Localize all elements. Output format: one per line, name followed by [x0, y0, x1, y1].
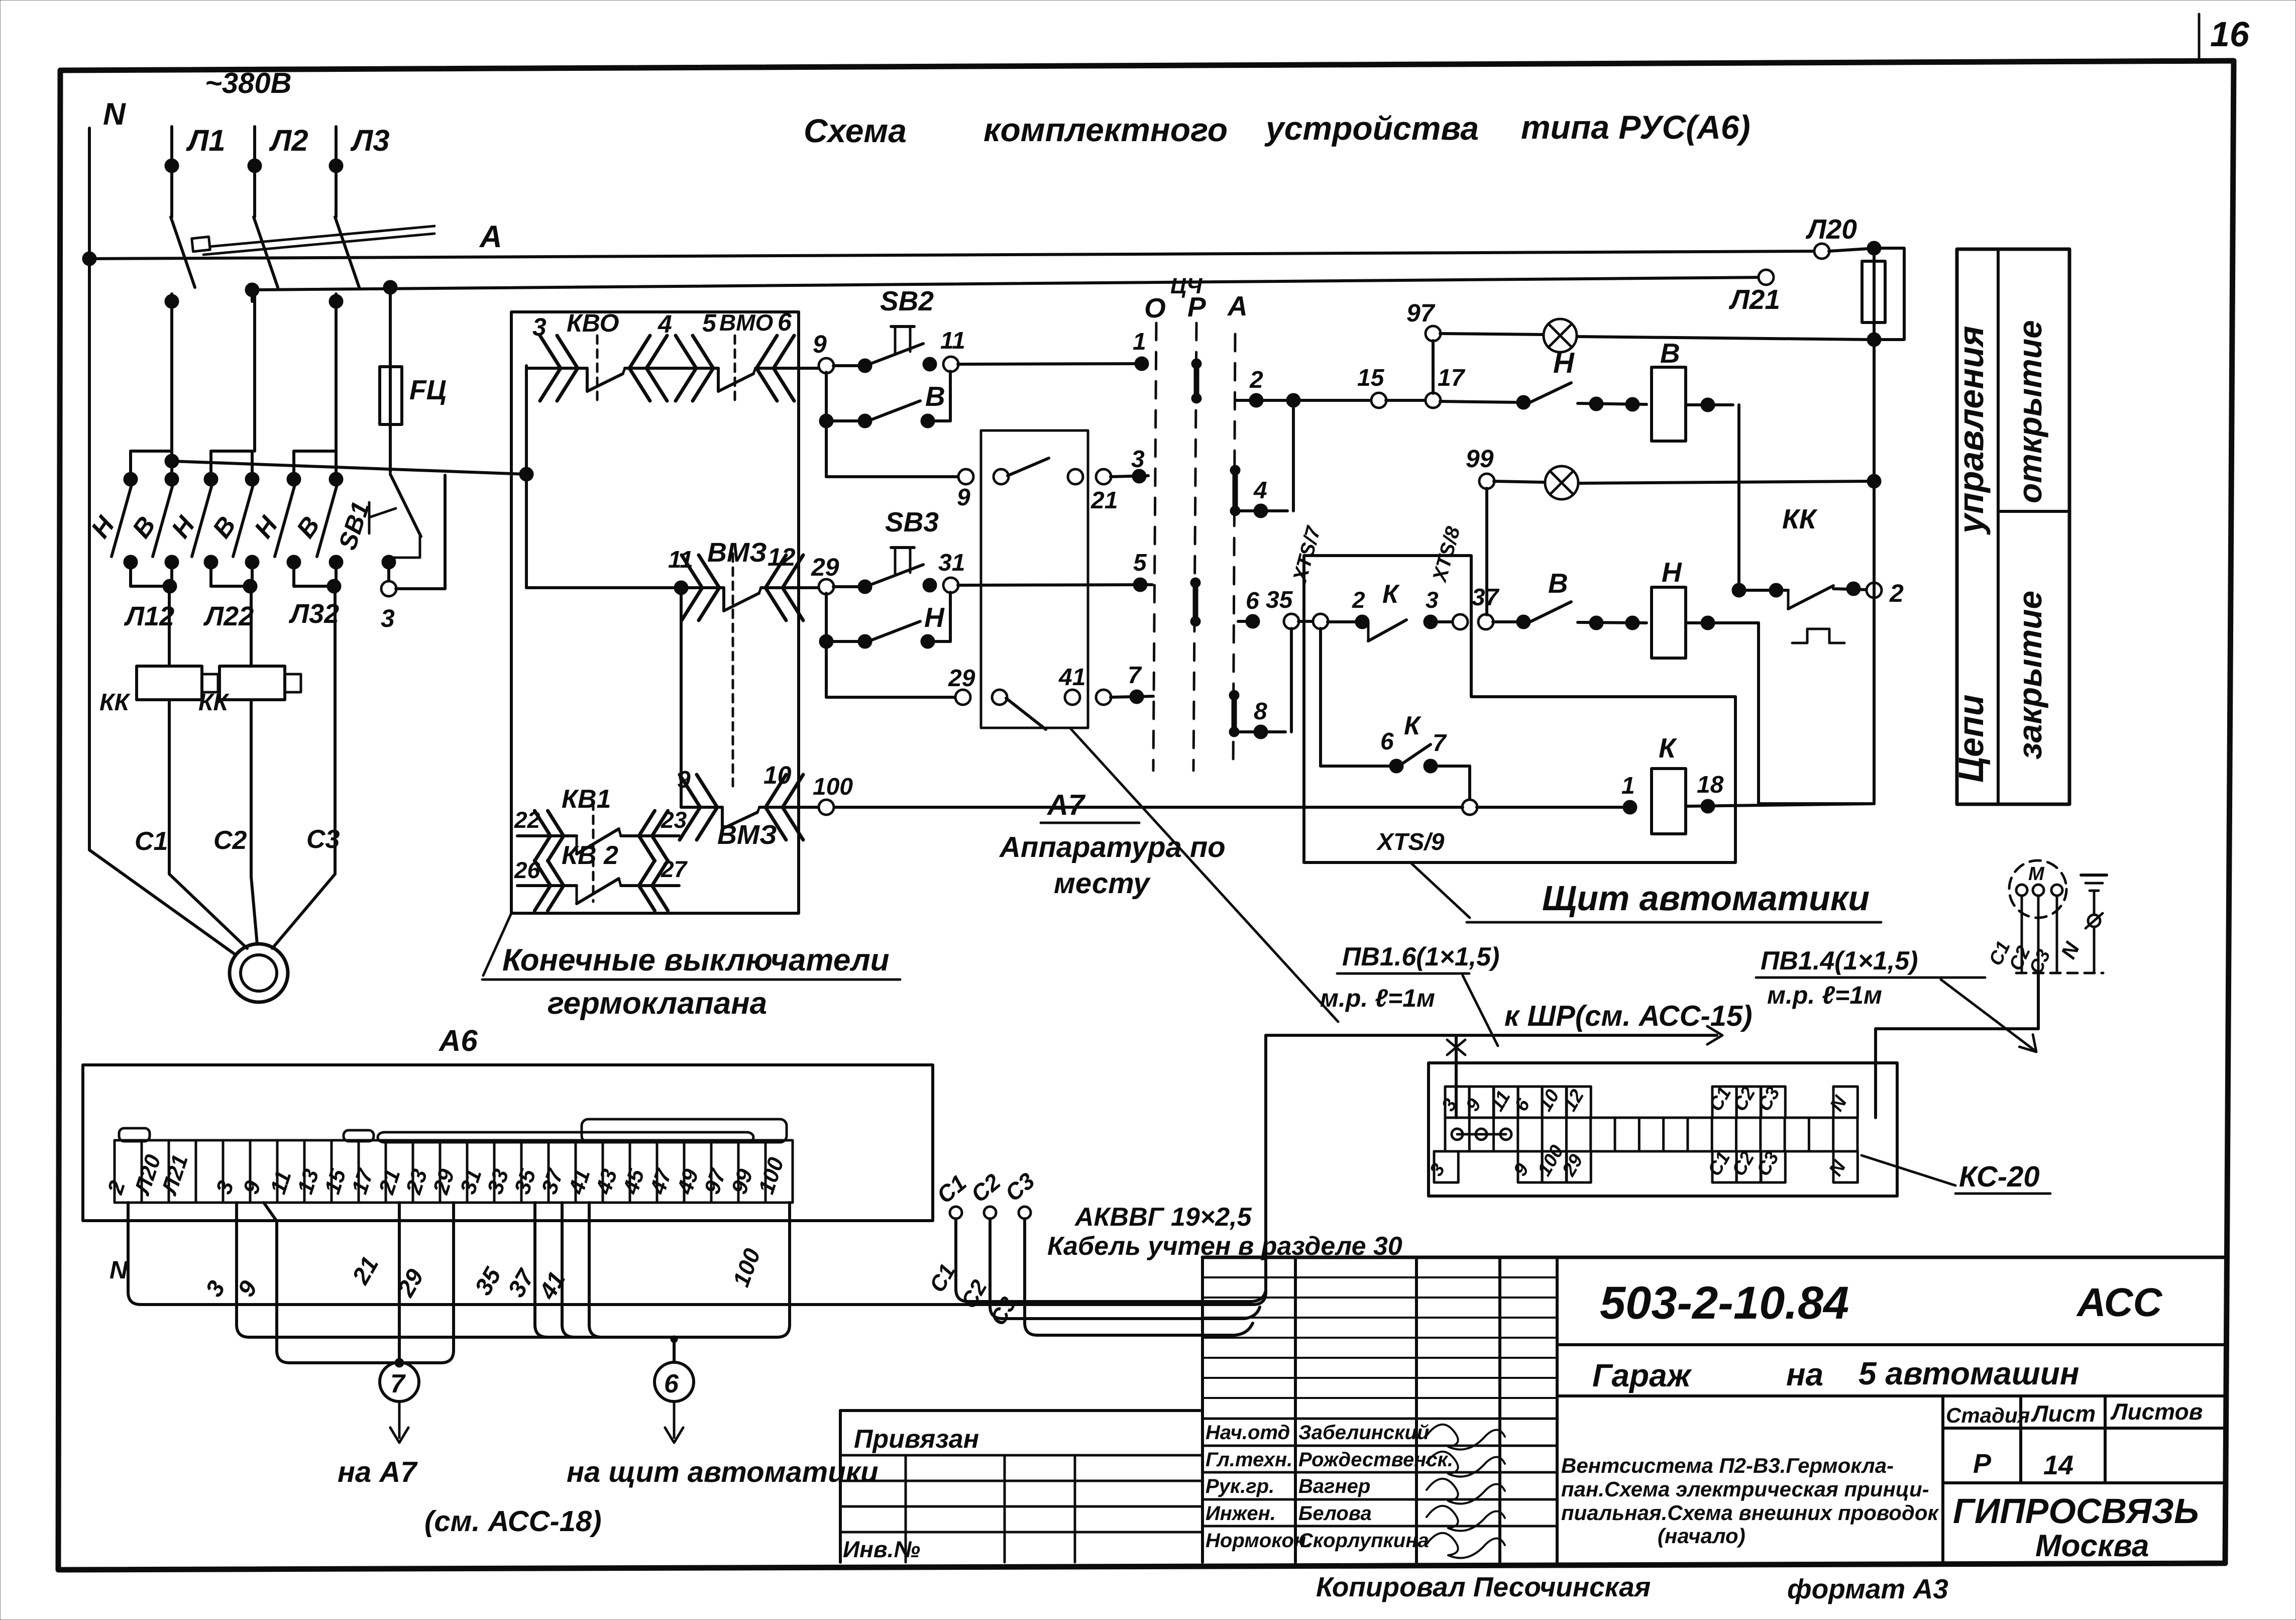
- svg-text:Конечные выключатели: Конечные выключатели: [502, 943, 890, 978]
- svg-text:9: 9: [813, 330, 827, 358]
- svg-text:11: 11: [668, 547, 693, 573]
- svg-text:SВ2: SВ2: [880, 285, 934, 316]
- svg-text:ВМЗ: ВМЗ: [717, 820, 777, 850]
- svg-text:гермоклапана: гермоклапана: [548, 986, 767, 1021]
- svg-text:7: 7: [1128, 662, 1142, 689]
- svg-text:Л2: Л2: [269, 124, 308, 157]
- svg-text:А: А: [1227, 290, 1248, 321]
- svg-text:10: 10: [763, 761, 792, 789]
- svg-text:Л22: Л22: [203, 601, 254, 631]
- svg-text:Инв.№: Инв.№: [843, 1536, 920, 1562]
- svg-text:23: 23: [661, 807, 687, 833]
- svg-text:пиальная.Схема внешних проводо: пиальная.Схема внешних проводок: [1561, 1501, 1939, 1525]
- svg-text:КК: КК: [1782, 503, 1818, 534]
- svg-text:КВ1: КВ1: [562, 785, 611, 814]
- svg-text:5 автомашин: 5 автомашин: [1858, 1355, 2080, 1391]
- svg-text:1: 1: [1133, 329, 1146, 355]
- svg-text:16: 16: [2210, 15, 2250, 54]
- svg-text:К: К: [1404, 711, 1422, 740]
- svg-text:К: К: [1382, 580, 1400, 609]
- svg-text:99: 99: [1466, 445, 1494, 473]
- svg-text:11: 11: [940, 328, 965, 354]
- svg-text:устройства: устройства: [1264, 110, 1479, 147]
- svg-text:Листов: Листов: [2110, 1398, 2203, 1425]
- svg-text:12: 12: [768, 543, 796, 571]
- svg-text:АКВВГ 19×2,5: АКВВГ 19×2,5: [1074, 1203, 1252, 1232]
- svg-text:КК: КК: [99, 689, 131, 716]
- svg-text:5: 5: [702, 309, 717, 337]
- svg-text:Гараж: Гараж: [1592, 1357, 1692, 1393]
- svg-text:закрытие: закрытие: [2011, 591, 2048, 760]
- svg-text:Л32: Л32: [288, 599, 339, 629]
- svg-text:5: 5: [1133, 550, 1147, 576]
- svg-text:С1: С1: [135, 827, 168, 856]
- svg-text:формат А3: формат А3: [1787, 1573, 1948, 1604]
- svg-text:Скорлупкина: Скорлупкина: [1298, 1530, 1429, 1552]
- svg-text:Нормокон.: Нормокон.: [1206, 1530, 1311, 1552]
- svg-text:3: 3: [532, 313, 546, 341]
- svg-text:на: на: [1786, 1356, 1823, 1392]
- svg-text:4: 4: [658, 310, 672, 338]
- svg-text:Л20: Л20: [1805, 213, 1857, 245]
- svg-text:Инжен.: Инжен.: [1206, 1502, 1276, 1525]
- svg-text:9: 9: [677, 767, 691, 793]
- svg-text:ПВ1.6(1×1,5): ПВ1.6(1×1,5): [1342, 942, 1499, 971]
- svg-text:Нач.отд: Нач.отд: [1206, 1422, 1290, 1444]
- svg-text:м.р. ℓ=1м: м.р. ℓ=1м: [1320, 984, 1435, 1012]
- svg-text:3: 3: [1426, 587, 1439, 613]
- svg-text:8: 8: [1254, 698, 1267, 725]
- svg-text:9: 9: [957, 484, 970, 511]
- svg-text:2: 2: [1352, 587, 1365, 613]
- svg-text:А6: А6: [438, 1024, 478, 1057]
- svg-text:К: К: [1659, 732, 1677, 764]
- svg-text:КВО: КВО: [567, 309, 619, 337]
- svg-text:31: 31: [938, 550, 965, 576]
- svg-text:27: 27: [661, 856, 688, 882]
- svg-text:В: В: [925, 381, 945, 412]
- svg-text:ГИПРОСВЯЗЬ: ГИПРОСВЯЗЬ: [1953, 1491, 2199, 1531]
- svg-text:Стадия: Стадия: [1946, 1403, 2030, 1427]
- svg-text:ХТS/9: ХТS/9: [1376, 829, 1445, 855]
- svg-text:7: 7: [1433, 730, 1447, 757]
- svg-text:SВ3: SВ3: [885, 506, 939, 537]
- svg-text:29: 29: [948, 665, 975, 692]
- svg-text:Москва: Москва: [2035, 1529, 2149, 1563]
- svg-text:2: 2: [1889, 579, 1904, 607]
- svg-text:Привязан: Привязан: [854, 1425, 979, 1454]
- svg-text:Схема: Схема: [804, 112, 907, 149]
- svg-text:(см. АСС-18): (см. АСС-18): [424, 1505, 602, 1538]
- svg-text:Н: Н: [924, 602, 945, 633]
- svg-text:29: 29: [811, 553, 839, 581]
- svg-text:2: 2: [1249, 367, 1263, 393]
- svg-text:503-2-10.84: 503-2-10.84: [1600, 1277, 1849, 1329]
- svg-text:С3: С3: [306, 825, 340, 854]
- svg-text:В: В: [1660, 338, 1680, 369]
- svg-text:управления: управления: [1951, 326, 1991, 535]
- svg-text:комплектного: комплектного: [983, 111, 1228, 148]
- svg-text:Забелинский: Забелинский: [1298, 1422, 1429, 1444]
- svg-text:6: 6: [1246, 588, 1259, 614]
- svg-text:ПВ1.4(1×1,5): ПВ1.4(1×1,5): [1761, 946, 1918, 976]
- svg-text:Рук.гр.: Рук.гр.: [1206, 1475, 1274, 1497]
- svg-text:С2: С2: [213, 826, 247, 855]
- svg-text:Щит автоматики: Щит автоматики: [1542, 879, 1870, 918]
- svg-text:18: 18: [1697, 772, 1724, 798]
- svg-text:Л12: Л12: [124, 601, 174, 631]
- svg-text:N: N: [103, 97, 126, 132]
- svg-text:26: 26: [514, 857, 540, 883]
- svg-text:Копировал Песочинская: Копировал Песочинская: [1316, 1571, 1651, 1602]
- svg-text:Р: Р: [1973, 1449, 1992, 1479]
- svg-text:22: 22: [514, 807, 540, 833]
- svg-text:ЦЧ: ЦЧ: [1170, 274, 1202, 298]
- svg-text:Н: Н: [1662, 557, 1682, 588]
- svg-text:6: 6: [1380, 728, 1394, 755]
- svg-text:типа РУС(А6): типа РУС(А6): [1521, 109, 1751, 146]
- svg-text:Гл.техн.: Гл.техн.: [1206, 1449, 1292, 1471]
- svg-text:на А7: на А7: [338, 1456, 418, 1488]
- svg-text:к ШР(см. АСС-15): к ШР(см. АСС-15): [1504, 1000, 1753, 1032]
- svg-text:Аппаратура по: Аппаратура по: [999, 831, 1226, 863]
- svg-text:Л21: Л21: [1728, 284, 1780, 315]
- svg-text:41: 41: [1058, 664, 1085, 691]
- svg-text:6: 6: [778, 308, 792, 336]
- svg-text:100: 100: [813, 774, 853, 800]
- svg-text:ВМЗ: ВМЗ: [707, 537, 767, 568]
- svg-text:(начало): (начало): [1658, 1524, 1745, 1548]
- svg-text:97: 97: [1406, 299, 1436, 327]
- svg-text:открытие: открытие: [2011, 320, 2048, 503]
- svg-text:14: 14: [2043, 1450, 2073, 1480]
- svg-text:АСС: АСС: [2076, 1280, 2163, 1325]
- svg-text:О: О: [1144, 292, 1166, 323]
- svg-text:35: 35: [1266, 587, 1293, 613]
- svg-text:Л3: Л3: [350, 124, 390, 157]
- svg-text:Лист: Лист: [2031, 1400, 2096, 1427]
- svg-text:на щит автоматики: на щит автоматики: [567, 1456, 879, 1488]
- svg-text:3: 3: [381, 604, 395, 632]
- svg-text:6: 6: [664, 1369, 679, 1398]
- svg-text:1: 1: [1621, 773, 1635, 799]
- svg-text:Белова: Белова: [1298, 1502, 1372, 1525]
- svg-text:А: А: [479, 220, 502, 254]
- svg-text:3: 3: [1131, 446, 1145, 473]
- svg-text:КС-20: КС-20: [1959, 1160, 2040, 1193]
- svg-text:ВМО: ВМО: [719, 309, 774, 336]
- svg-text:пан.Схема электрическая принци: пан.Схема электрическая принци-: [1561, 1477, 1929, 1501]
- svg-text:17: 17: [1438, 365, 1466, 391]
- svg-text:4: 4: [1253, 477, 1267, 504]
- svg-text:N: N: [110, 1256, 128, 1284]
- svg-text:м.р. ℓ=1м: м.р. ℓ=1м: [1767, 981, 1882, 1009]
- svg-text:21: 21: [1090, 487, 1118, 514]
- svg-text:КВ 2: КВ 2: [562, 841, 618, 870]
- svg-text:FЦ: FЦ: [409, 374, 447, 405]
- svg-text:Вагнер: Вагнер: [1298, 1475, 1370, 1497]
- svg-text:Цепи: Цепи: [1951, 695, 1991, 783]
- svg-text:КК: КК: [198, 689, 230, 716]
- svg-text:~380В: ~380В: [205, 67, 292, 99]
- svg-text:7: 7: [390, 1369, 406, 1398]
- svg-text:Вентсистема П2-В3.Гермокла-: Вентсистема П2-В3.Гермокла-: [1561, 1454, 1894, 1477]
- svg-text:Л1: Л1: [186, 124, 226, 157]
- svg-text:15: 15: [1357, 365, 1385, 391]
- svg-text:месту: месту: [1054, 867, 1151, 900]
- svg-text:В: В: [1548, 568, 1568, 599]
- svg-text:М: М: [2028, 863, 2045, 885]
- svg-text:А7: А7: [1046, 789, 1086, 821]
